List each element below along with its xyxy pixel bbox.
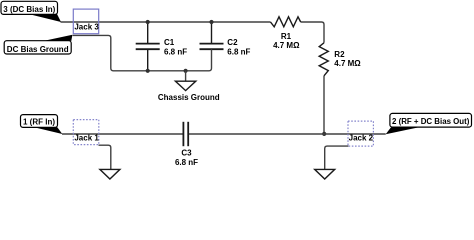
svg-text:6.8 nF: 6.8 nF (175, 158, 198, 167)
port flag 3 (DC Bias In) (1, 1, 61, 22)
svg-text:6.8 nF: 6.8 nF (227, 48, 250, 57)
jack J3 box (73, 9, 99, 34)
svg-text:C1: C1 (164, 38, 175, 47)
svg-text:C2: C2 (227, 38, 238, 47)
svg-text:DC Bias Ground: DC Bias Ground (7, 45, 69, 54)
jack J2 box (348, 121, 374, 146)
node C1 bottom (146, 69, 150, 73)
resistor R1 (271, 17, 301, 50)
svg-text:4.7 MΩ: 4.7 MΩ (334, 59, 361, 68)
svg-text:4.7 MΩ: 4.7 MΩ (273, 41, 300, 50)
svg-text:R2: R2 (334, 50, 345, 59)
svg-text:Jack 1: Jack 1 (74, 134, 99, 143)
port flag 1 (RF In) (21, 115, 63, 134)
node R2 bottom junction (322, 132, 326, 136)
node C2 top (209, 20, 213, 24)
port flag DC Bias Ground (4, 35, 72, 54)
wire bottom bus (RF net) (62, 133, 386, 135)
capacitor C3 (175, 122, 198, 167)
node C1 top (146, 20, 150, 24)
port flag 2 (RF + DC Bias Out) (386, 113, 472, 134)
wire jack1 sleeve to ground (99, 145, 111, 169)
wire top bus (DC bias net) (61, 22, 325, 43)
svg-text:1 (RF In): 1 (RF In) (23, 118, 55, 127)
capacitor C1 (136, 22, 188, 71)
node chassis tap (184, 69, 188, 73)
ground at jack1 (100, 169, 120, 179)
svg-text:2 (RF + DC Bias Out): 2 (RF + DC Bias Out) (392, 117, 470, 126)
chassis ground (158, 71, 220, 102)
ground at jack2 (315, 169, 335, 179)
svg-text:6.8 nF: 6.8 nF (164, 48, 187, 57)
svg-text:Jack 2: Jack 2 (349, 134, 374, 143)
resistor R2 (319, 43, 361, 76)
svg-text:Chassis Ground: Chassis Ground (158, 93, 220, 102)
svg-text:Jack 3: Jack 3 (74, 23, 99, 32)
svg-text:R1: R1 (281, 32, 292, 41)
wire jack3 sleeve to ground bus and C2 bottom lead (73, 35, 212, 70)
wire jack2 sleeve to ground (325, 146, 349, 169)
jack J1 box (73, 120, 99, 145)
capacitor C2 (200, 22, 251, 57)
svg-text:3 (DC Bias In): 3 (DC Bias In) (3, 5, 55, 14)
wire R2 lower lead to bottom bus (323, 76, 325, 134)
svg-text:C3: C3 (181, 149, 192, 158)
